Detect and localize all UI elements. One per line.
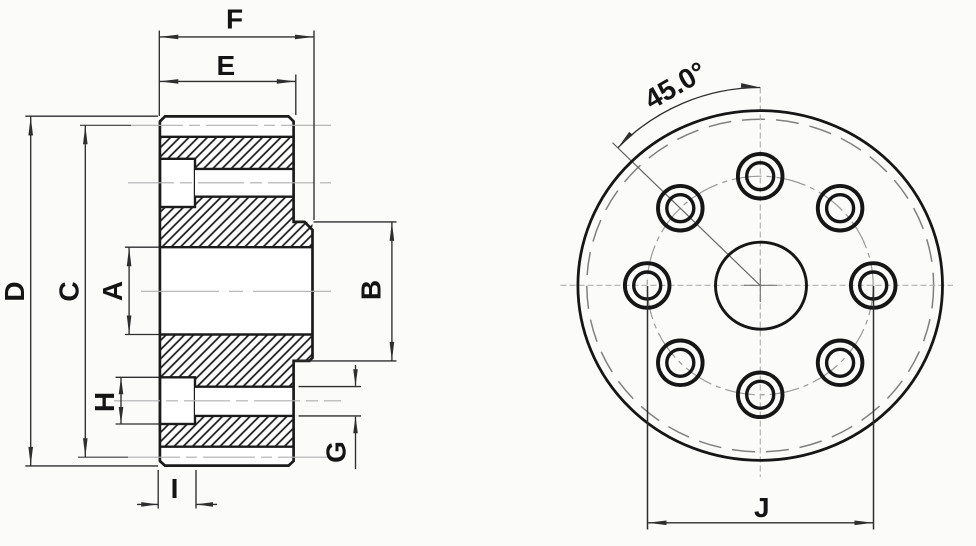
dim D — [25, 115, 158, 117]
dim A — [125, 246, 159, 248]
dim F — [158, 31, 160, 117]
top bolt hole upper edge — [195, 168, 294, 170]
front view dashed circle — [587, 119, 934, 452]
bolt hole 225deg — [658, 341, 703, 386]
hatch band 2 — [160, 197, 313, 248]
angle dimension arc — [618, 88, 760, 148]
bottom bolt hole lower edge — [195, 415, 294, 417]
hatch band 1 — [160, 137, 294, 169]
pitch centerline bottom — [78, 456, 128, 458]
svg-text:F: F — [226, 4, 243, 35]
center bore upper edge — [160, 246, 313, 248]
svg-text:E: E — [216, 50, 235, 81]
section view outline stroke — [160, 116, 313, 465]
svg-text:A: A — [97, 281, 128, 301]
dim E — [295, 75, 297, 116]
pitch centerline top — [80, 124, 131, 126]
bolt hole 90deg — [738, 154, 783, 199]
svg-text:I: I — [171, 473, 179, 504]
main axis centerline — [141, 290, 334, 292]
bolt hole 0deg — [851, 263, 896, 308]
bolt circle — [647, 176, 873, 395]
tooth band lower border — [160, 446, 294, 448]
dim C — [84, 125, 86, 457]
bolt hole 180deg — [625, 263, 670, 308]
bottom hole centerline — [114, 400, 341, 402]
horizontal centerline — [561, 284, 954, 286]
svg-text:B: B — [356, 280, 387, 300]
hatch band 4 — [160, 416, 294, 447]
dim G — [299, 386, 361, 388]
svg-text:J: J — [754, 492, 770, 523]
radial line 45 deg — [613, 143, 761, 286]
svg-text:G: G — [321, 441, 352, 463]
counterbore top hole — [160, 159, 195, 207]
top bolt hole lower edge — [195, 195, 294, 197]
svg-text:D: D — [0, 281, 30, 301]
bolt hole 270deg — [738, 373, 783, 418]
center bore — [716, 242, 807, 329]
vertical centerline — [759, 88, 761, 478]
bolt hole 135deg — [658, 186, 703, 231]
front view outer circle — [578, 111, 943, 461]
svg-text:H: H — [89, 392, 120, 412]
svg-text:C: C — [53, 281, 84, 301]
through hole bottom band — [195, 387, 294, 416]
counterbore bottom hole — [160, 377, 195, 424]
top hole centerline — [128, 182, 331, 184]
dim B — [314, 221, 397, 223]
tooth band upper border — [160, 136, 294, 138]
bolt hole 45deg — [818, 186, 863, 231]
dim H — [116, 376, 159, 378]
bottom bolt hole upper edge — [195, 386, 294, 388]
center cross — [744, 284, 777, 286]
dim I — [157, 470, 159, 509]
center bore lower edge — [160, 333, 313, 335]
dim J — [647, 286, 649, 530]
through hole top band — [195, 169, 294, 197]
bolt hole 315deg — [818, 341, 863, 386]
hatch band 3 — [160, 335, 313, 387]
section view body outline — [160, 116, 313, 465]
